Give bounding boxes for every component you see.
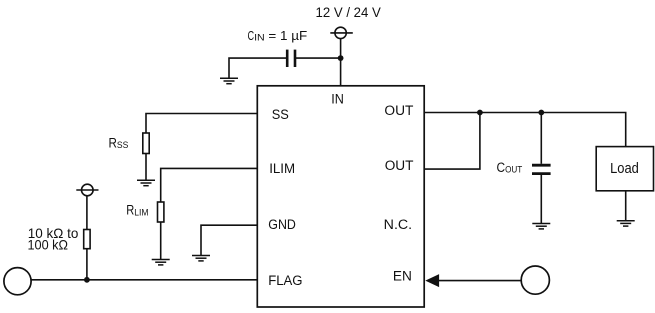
EN drive terminal circle — [521, 266, 549, 294]
wire terminal to resistor — [86, 196, 88, 229]
svg-text:Load: Load — [610, 161, 639, 177]
wire CIN to ground — [229, 58, 286, 78]
wire RLIM to ground — [160, 222, 162, 260]
FLAG output terminal circle — [4, 268, 31, 295]
ground (Load) — [617, 221, 635, 226]
svg-text:12 V / 24 V: 12 V / 24 V — [316, 5, 382, 21]
wire IN node to CIN — [295, 57, 341, 59]
wire load to ground — [625, 191, 627, 221]
wire OUT2 — [424, 113, 480, 170]
resistor RLIM — [158, 202, 164, 222]
svg-text:GND: GND — [268, 217, 296, 233]
load box — [596, 147, 653, 191]
svg-text:OUT: OUT — [384, 103, 413, 119]
wire OUT1 to load — [424, 113, 626, 147]
wire FLAG — [31, 279, 257, 281]
svg-text:IN: IN — [331, 92, 344, 108]
resistor RSS — [143, 133, 149, 154]
svg-text:N.C.: N.C. — [384, 217, 412, 233]
wire SS — [146, 114, 257, 134]
svg-text:OUT: OUT — [385, 158, 414, 174]
svg-text:SS: SS — [272, 107, 289, 123]
wire ILIM — [161, 168, 258, 202]
svg-text:100 kΩ: 100 kΩ — [28, 236, 69, 252]
ground (RSS) — [137, 180, 155, 185]
wire COUT to ground — [540, 175, 542, 224]
capacitor COUT — [532, 165, 551, 173]
ground (RLIM) — [152, 260, 170, 265]
pull-up terminal — [76, 184, 98, 196]
wire GND — [201, 225, 257, 255]
junction dot IN node — [338, 55, 344, 61]
wire resistor to FLAG node — [86, 249, 88, 280]
op IC box U1 — [257, 86, 424, 307]
ground (CIN) — [220, 78, 238, 83]
wire RSS to ground — [145, 154, 147, 181]
capacitor CIN — [287, 50, 295, 67]
junction dot FLAG node — [84, 277, 90, 283]
input terminal — [330, 27, 353, 38]
ground (COUT) — [532, 224, 550, 229]
svg-text:EN: EN — [393, 269, 412, 285]
junction dot OUT/COUT — [538, 110, 544, 116]
wire IN vertical — [340, 39, 342, 86]
svg-text:FLAG: FLAG — [268, 273, 302, 289]
resistor 10k-100k — [84, 230, 90, 249]
wire EN — [439, 280, 521, 282]
ground (GND pin) — [192, 256, 210, 261]
junction dot OUT/OUT2 — [477, 110, 483, 116]
arrowhead into EN — [425, 274, 439, 287]
wire OUT node to COUT — [540, 113, 542, 164]
svg-text:ILIM: ILIM — [269, 161, 295, 177]
